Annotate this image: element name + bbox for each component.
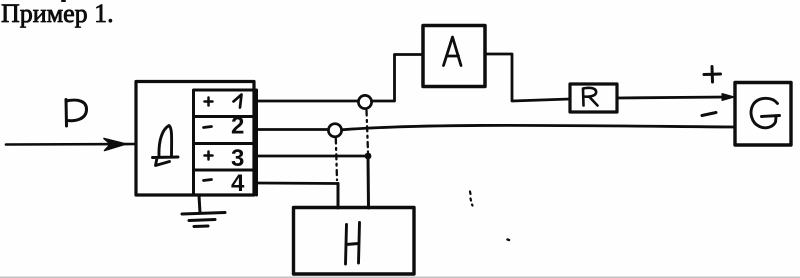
wire: resistor to galvanometer xyxy=(617,97,727,98)
junction dot on wire 3 xyxy=(365,153,372,160)
ground symbol xyxy=(182,196,225,227)
wire 4: terminal 4 to bend xyxy=(257,182,339,185)
node circle on wire 1 (test point) xyxy=(358,95,371,108)
heater box Н xyxy=(294,208,415,275)
letter R xyxy=(583,88,598,106)
svg-text:2: 2 xyxy=(231,113,244,140)
wire 3: terminal 3 to junction xyxy=(257,155,369,158)
scan artifact: colon mark xyxy=(470,192,473,206)
dash-dot link from node 1 down to wire 3 xyxy=(367,111,369,153)
scan artifact: bottom edge line xyxy=(0,276,800,278)
svg-text:4: 4 xyxy=(231,170,245,197)
wire: ammeter to resistor xyxy=(485,54,570,101)
wire 2: node to galvanometer minus xyxy=(342,125,735,129)
resistor R box xyxy=(570,84,617,112)
wire: input arrow into sensor xyxy=(6,143,135,146)
galvanometer G box xyxy=(735,83,791,146)
terminal 1 pin number 1 xyxy=(234,95,242,108)
minus sign at galvanometer xyxy=(702,113,716,116)
letter Н xyxy=(346,223,360,265)
scan artifact: dot xyxy=(508,238,510,241)
wire 2: terminal 2 to node circle xyxy=(257,128,329,131)
wire: junction down to heater box xyxy=(367,156,371,208)
sensor box Д (outer rectangle) xyxy=(136,82,254,196)
svg-text:Пример 1.: Пример 1. xyxy=(1,0,114,28)
scan artifact: top small mark xyxy=(62,0,65,2)
terminal 4 polarity - xyxy=(204,180,212,181)
terminal block divider and rows xyxy=(194,90,257,195)
wire 1: node to jog up to ammeter xyxy=(371,55,423,102)
svg-text:3: 3 xyxy=(231,145,244,172)
plus sign at galvanometer xyxy=(704,67,721,83)
label P (input quantity) xyxy=(66,100,87,127)
wire 1: terminal 1 to node circle xyxy=(257,100,359,103)
terminal 3 polarity + xyxy=(205,152,213,160)
dash-dot link from node 2 down to wire 4 xyxy=(336,139,337,181)
terminal 2 polarity - xyxy=(204,127,212,128)
ammeter A box xyxy=(423,26,485,87)
letter G xyxy=(751,98,779,127)
node circle on wire 2 (test point) xyxy=(328,124,341,137)
terminal 1 polarity + xyxy=(205,98,213,106)
letter A xyxy=(444,37,462,66)
wire: bend down to heater box xyxy=(337,184,340,209)
letter Д (handwritten) xyxy=(153,126,179,166)
